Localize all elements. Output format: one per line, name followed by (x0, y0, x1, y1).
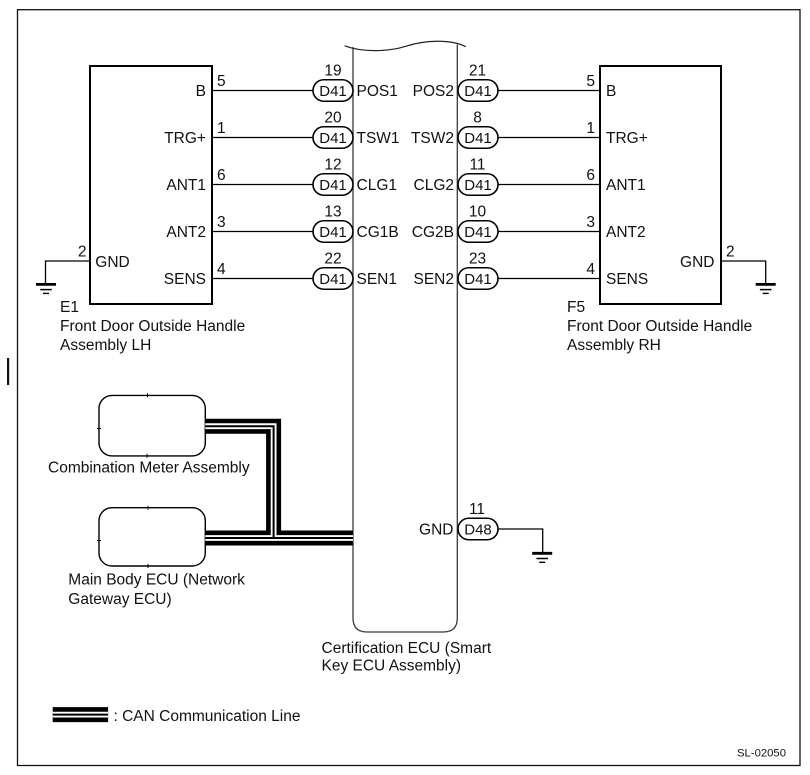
svg-text:SL-02050: SL-02050 (737, 748, 786, 760)
svg-text:ANT2: ANT2 (166, 224, 206, 241)
svg-text:ANT1: ANT1 (606, 177, 646, 194)
svg-text:13: 13 (324, 203, 341, 220)
connector pin D41-11 (458, 156, 498, 195)
svg-text:TRG+: TRG+ (164, 130, 206, 147)
svg-text:Front Door Outside Handle: Front Door Outside Handle (567, 318, 752, 335)
svg-text:D41: D41 (319, 83, 347, 100)
connector pin D41-8 (458, 109, 498, 148)
connector block F5 Front Door Outside Handle Assembly RH (600, 66, 721, 304)
svg-text:D41: D41 (464, 83, 492, 100)
connector pin D41-13 (313, 203, 353, 242)
wire POS2 to B (498, 90, 600, 92)
connector pin D41-20 (313, 109, 353, 148)
svg-text:CLG1: CLG1 (357, 177, 398, 194)
svg-text:23: 23 (469, 250, 486, 267)
Certification ECU column body (353, 45, 457, 633)
svg-text:3: 3 (586, 214, 595, 231)
svg-text:22: 22 (324, 250, 341, 267)
svg-text:GND: GND (419, 522, 453, 539)
svg-text:F5: F5 (567, 299, 585, 316)
connector pin D48-11 GND (458, 501, 498, 540)
connector block E1 Front Door Outside Handle Assembly LH (90, 66, 212, 304)
svg-text:Main Body ECU (Network: Main Body ECU (Network (68, 572, 245, 589)
svg-text:CG1B: CG1B (357, 224, 399, 241)
svg-text:19: 19 (324, 62, 341, 79)
svg-text:TRG+: TRG+ (606, 130, 648, 147)
wire SEN2 to SENS (498, 278, 600, 280)
ground symbol right (756, 284, 776, 293)
wire ANT2 to CG1B (212, 231, 313, 233)
Main Body ECU box (99, 508, 205, 566)
svg-text:8: 8 (473, 109, 482, 126)
svg-text:4: 4 (586, 261, 595, 278)
svg-text:SEN1: SEN1 (357, 271, 398, 288)
svg-text:TSW1: TSW1 (357, 130, 400, 147)
svg-text:D41: D41 (319, 271, 347, 288)
CAN ribbon white gaps (205, 426, 273, 538)
svg-text:D41: D41 (464, 224, 492, 241)
wire B to POS1 (212, 90, 313, 92)
svg-text:10: 10 (469, 203, 487, 220)
svg-text:Front Door Outside Handle: Front Door Outside Handle (60, 318, 245, 335)
svg-text:1: 1 (217, 120, 226, 137)
svg-text:Assembly LH: Assembly LH (60, 337, 151, 354)
svg-text:11: 11 (469, 156, 485, 173)
CAN ribbon combination meter to junction (205, 426, 273, 538)
svg-text:SENS: SENS (606, 271, 648, 288)
svg-text:D41: D41 (319, 130, 347, 147)
ground symbol center (532, 553, 552, 562)
svg-text:20: 20 (324, 109, 342, 126)
svg-text:21: 21 (469, 62, 486, 79)
connector pin D41-22 (313, 250, 353, 289)
wire F5 pin2 GND to ground (721, 261, 766, 284)
svg-text:GND: GND (680, 254, 714, 271)
svg-text:TSW2: TSW2 (411, 130, 454, 147)
svg-text:E1: E1 (60, 299, 79, 316)
svg-text:D41: D41 (464, 177, 492, 194)
svg-text:Key ECU Assembly): Key ECU Assembly) (322, 657, 462, 674)
svg-text:D41: D41 (464, 271, 492, 288)
svg-text:B: B (606, 83, 616, 100)
svg-text:CLG2: CLG2 (414, 177, 455, 194)
connector pin D41-21 (458, 62, 498, 101)
svg-text:2: 2 (726, 243, 735, 260)
svg-text:SENS: SENS (164, 271, 206, 288)
svg-text:D48: D48 (464, 522, 492, 539)
wire CG2B to ANT2 (498, 231, 600, 233)
svg-text:4: 4 (217, 261, 226, 278)
connector pin D41-10 (458, 203, 498, 242)
connector pin D41-23 (458, 250, 498, 289)
svg-text:1: 1 (586, 120, 595, 137)
svg-text:CG2B: CG2B (412, 224, 454, 241)
svg-text:GND: GND (95, 254, 129, 271)
wire TSW2 to TRG+ (498, 137, 600, 139)
svg-text:B: B (196, 83, 206, 100)
svg-text:Combination Meter Assembly: Combination Meter Assembly (48, 460, 250, 477)
svg-text:Assembly RH: Assembly RH (567, 337, 661, 354)
svg-text:ANT1: ANT1 (166, 177, 206, 194)
wire CLG2 to ANT1 (498, 184, 600, 186)
connector pin D41-12 (313, 156, 353, 195)
ground symbol left (36, 284, 56, 293)
svg-text:6: 6 (217, 167, 226, 184)
svg-text:3: 3 (217, 214, 226, 231)
svg-text:SEN2: SEN2 (414, 271, 455, 288)
svg-text:: CAN Communication Line: : CAN Communication Line (114, 708, 301, 725)
legend CAN ribbon sample (53, 707, 108, 722)
svg-text:POS1: POS1 (357, 83, 398, 100)
svg-text:POS2: POS2 (413, 83, 454, 100)
svg-text:D41: D41 (464, 130, 492, 147)
CAN ribbon center lines (205, 426, 273, 538)
harness break wavy line (345, 41, 466, 50)
tick marks on combination meter box (147, 393, 149, 397)
wire TRG+ to TSW1 (212, 137, 313, 139)
svg-text:11: 11 (469, 501, 485, 518)
svg-text:12: 12 (324, 156, 341, 173)
svg-text:D41: D41 (319, 177, 347, 194)
svg-text:5: 5 (586, 73, 595, 90)
svg-text:ANT2: ANT2 (606, 224, 646, 241)
tick marks on main body ECU box (147, 506, 149, 510)
svg-text:6: 6 (586, 167, 595, 184)
connector pin D41-19 (313, 62, 353, 101)
wire E1 pin2 GND to ground (46, 261, 91, 284)
wire ANT1 to CLG1 (212, 184, 313, 186)
svg-text:5: 5 (217, 73, 226, 90)
CAN ribbon main body ECU to certification ECU (205, 531, 353, 546)
svg-text:D41: D41 (319, 224, 347, 241)
Combination Meter Assembly box (99, 395, 205, 456)
svg-text:2: 2 (78, 243, 87, 260)
stray cursor mark left margin (7, 358, 9, 385)
svg-text:Gateway ECU): Gateway ECU) (68, 591, 171, 608)
wire SENS to SEN1 (212, 278, 313, 280)
svg-text:Certification ECU (Smart: Certification ECU (Smart (322, 640, 492, 657)
wire D48 to ground (498, 529, 543, 553)
